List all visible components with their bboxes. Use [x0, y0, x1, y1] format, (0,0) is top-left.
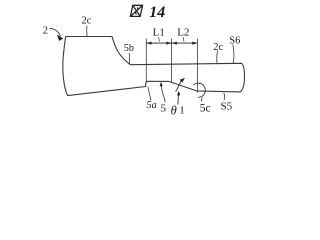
leader 5a	[148, 87, 151, 101]
figure label 図 14	[130, 5, 142, 16]
svg-text:5a: 5a	[147, 100, 157, 111]
svg-text:5: 5	[161, 102, 167, 114]
arrowheads middle	[166, 42, 171, 45]
angle arc theta1	[193, 83, 205, 97]
leader 2c right	[216, 50, 219, 63]
leader 5 with arrowhead	[161, 85, 165, 103]
extension line at start of slope	[171, 39, 173, 83]
part 2 outline (cross-section)	[63, 37, 245, 96]
svg-text:1: 1	[179, 105, 185, 117]
leader S5	[223, 93, 226, 100]
svg-text:5b: 5b	[124, 43, 134, 54]
leader theta1 lower arrow	[177, 94, 180, 105]
svg-text:θ: θ	[171, 103, 177, 117]
leader 2c left	[86, 26, 88, 37]
leader 2 with arrowhead	[50, 29, 61, 37]
svg-text:S5: S5	[221, 101, 233, 113]
leader theta1 upper arrow crossing slope	[176, 81, 182, 92]
dimension line L1-L2	[146, 42, 197, 44]
extension line at angle vertex	[196, 39, 198, 93]
tick under L1	[158, 37, 161, 41]
svg-text:14: 14	[149, 4, 165, 21]
svg-text:L2: L2	[177, 27, 189, 39]
tick under L2	[182, 37, 185, 41]
svg-text:L1: L1	[153, 27, 165, 39]
svg-text:2c: 2c	[82, 15, 92, 26]
extension line at 5a step	[145, 39, 147, 83]
svg-text:2: 2	[43, 26, 48, 37]
leader 5c	[200, 98, 203, 102]
svg-text:2c: 2c	[213, 42, 223, 53]
svg-text:S6: S6	[229, 35, 240, 46]
arrowhead left of L1	[146, 42, 151, 45]
leader S6	[233, 44, 234, 63]
svg-text:5c: 5c	[200, 103, 211, 115]
leader 5b	[128, 53, 130, 64]
arrowhead right of L2	[192, 42, 197, 45]
